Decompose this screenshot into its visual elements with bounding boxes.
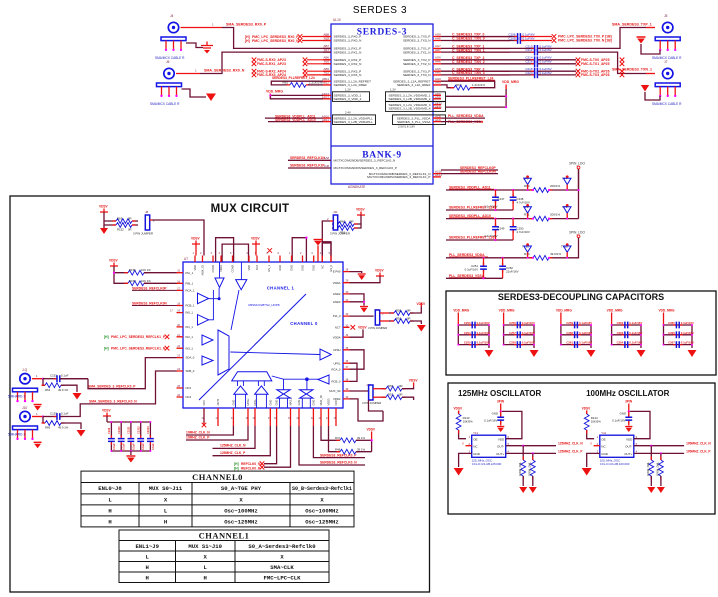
node VDDAMD group box right 1 <box>386 92 446 102</box>
svg-text:AC9: AC9 <box>435 118 441 122</box>
svg-text:REFCLK0_P: REFCLK0_P <box>241 467 261 471</box>
node VDD group box left <box>333 92 370 102</box>
svg-text:MGTXCOMGNDB/SERDES_3_REFCLK0_N: MGTXCOMGNDB/SERDES_3_REFCLK0_N <box>334 159 396 163</box>
svg-text:1.21K/1%: 1.21K/1% <box>309 81 322 85</box>
svg-text:0.1uF/16V: 0.1uF/16V <box>522 321 535 325</box>
svg-text:C249: C249 <box>498 227 505 231</box>
svg-text:VDD: VDD <box>498 437 505 441</box>
jumper J13 lower right <box>350 390 369 392</box>
buffer B4 <box>198 315 209 326</box>
svg-text:125MHZ_CLK_N: 125MHZ_CLK_N <box>558 442 583 446</box>
capacitor C258 0.1uF/16V <box>514 341 524 348</box>
svg-text:C216: C216 <box>525 60 533 64</box>
svg-text:R64: R64 <box>45 388 51 392</box>
wire decoupling bus group 4 <box>612 325 641 348</box>
svg-text:R63: R63 <box>117 217 123 221</box>
wire J-Q to mux pin <box>60 358 176 389</box>
svg-text:SMA_SERDES3_RX0_P: SMA_SERDES3_RX0_P <box>226 23 267 27</box>
transistor bowtie cluster <box>277 390 290 394</box>
ground of J4 <box>186 43 203 48</box>
capacitor C262 0.1uF/16V <box>622 322 632 329</box>
svg-text:VDD: VDD <box>247 265 251 271</box>
wire TX to nc FMC-S-TX0_AP25 <box>538 59 576 61</box>
svg-text:GND2: GND2 <box>333 292 341 296</box>
svg-text:FMC~LPC~CLK: FMC~LPC~CLK <box>264 575 302 582</box>
svg-text:SERDES_3_VDD_2: SERDES_3_VDD_2 <box>334 97 362 101</box>
svg-text:SMA_SERDES3_RX0_N: SMA_SERDES3_RX0_N <box>204 69 245 73</box>
wire to cap <box>441 74 534 76</box>
svg-text:200/1%: 200/1% <box>550 213 561 217</box>
resistor R157 10K 1% <box>125 281 148 286</box>
svg-text:CCL.D.GS.AB.100.000: CCL.D.GS.AB.100.000 <box>600 462 630 466</box>
svg-text:H: H <box>164 519 167 526</box>
svg-text:0.1uF: 0.1uF <box>141 443 145 450</box>
svg-text:0.1uF: 0.1uF <box>112 443 116 450</box>
svg-text:NC: NC <box>320 265 324 269</box>
buffer B5 <box>202 335 213 345</box>
ground pulldown 1 <box>647 487 655 493</box>
svg-text:R56: R56 <box>388 384 394 388</box>
svg-text:FMC-S-TX1_AP25: FMC-S-TX1_AP25 <box>581 62 610 66</box>
capacitor C265 0.1uF/16V <box>673 322 683 329</box>
svg-text:IN1_1: IN1_1 <box>186 325 194 329</box>
svg-text:H: H <box>108 508 111 515</box>
svg-text:4.7uF/16V: 4.7uF/16V <box>517 200 530 204</box>
svg-text:S0_A~TGE PHY: S0_A~TGE PHY <box>221 485 262 492</box>
svg-text:C208: C208 <box>508 36 516 40</box>
ground decoupling group 3 <box>587 350 596 357</box>
BANK-9 divider <box>331 145 433 147</box>
svg-text:GND: GND <box>301 265 305 271</box>
svg-text:R58: R58 <box>396 309 402 313</box>
svg-text:X: X <box>590 442 592 446</box>
node PLL VDDA group box right <box>393 115 446 125</box>
capacitor C256 0.1uF/16V <box>514 322 524 329</box>
pin 1 stub J10 <box>32 416 42 418</box>
resistor pulldown 2 <box>532 453 534 460</box>
wire TX to nc FMC-S-TX3_AP26 <box>538 74 576 76</box>
wire to cap <box>441 59 534 61</box>
resistor R48 39 1% <box>329 426 341 452</box>
ground cap bank <box>130 451 132 455</box>
svg-text:H: H <box>146 575 149 582</box>
svg-text:VDDA: VDDA <box>333 281 341 285</box>
svg-text:CHANNEL 0: CHANNEL 0 <box>290 321 318 326</box>
svg-text:J5: J5 <box>664 14 668 18</box>
wire J6 to RX1_N <box>200 52 331 73</box>
svg-text:IN3_1: IN3_1 <box>186 346 194 350</box>
svg-text:C264: C264 <box>617 341 624 345</box>
svg-text:SERDES3_PLLREFRET_L26: SERDES3_PLLREFRET_L26 <box>449 236 495 240</box>
wire TX to nc FMC-S-TX2_AP26 <box>538 70 576 72</box>
ground decoupling group 1 <box>485 350 494 357</box>
wire VDD loop <box>502 411 522 438</box>
ground J12 <box>417 325 426 332</box>
net FMC-S-RX no-connect row 2 <box>252 73 257 78</box>
ground pulldown 2 <box>529 487 537 493</box>
pin AD8 <box>433 98 441 100</box>
pin 1 stub J4 <box>181 27 223 29</box>
svg-text:R47: R47 <box>335 436 341 440</box>
svg-text:H: H <box>108 519 111 526</box>
svg-text:PLL_SERDES3_VDDA: PLL_SERDES3_VDDA <box>449 253 485 257</box>
svg-text:AGNDKATE: AGNDKATE <box>348 185 365 189</box>
svg-text:J-Q: J-Q <box>22 368 28 372</box>
wire TX to nc FMC-S-TX1_AP25 <box>538 63 576 65</box>
svg-text:C263: C263 <box>617 331 624 335</box>
pin AD10 <box>323 117 331 119</box>
wire loop top D <box>322 242 331 262</box>
svg-text:125MHZ_CLK_P: 125MHZ_CLK_P <box>220 451 246 455</box>
svg-text:49.9 1%: 49.9 1% <box>58 388 69 392</box>
svg-text:3PIN: 3PIN <box>497 400 505 404</box>
svg-text:0.1uF: 0.1uF <box>61 374 69 378</box>
svg-text:R69: R69 <box>524 184 530 188</box>
ground pulldown 2 <box>657 487 665 493</box>
svg-text:NC4: NC4 <box>186 395 192 399</box>
svg-text:AA8: AA8 <box>324 156 330 160</box>
svg-text:C220: C220 <box>525 71 533 75</box>
resistor R56 0R <box>373 388 382 390</box>
wire OUT- <box>634 445 684 447</box>
svg-text:3PIN_LDO: 3PIN_LDO <box>569 231 585 235</box>
svg-text:C151: C151 <box>50 374 57 378</box>
svg-text:NC5: NC5 <box>202 400 206 406</box>
svg-text:SERDES_3_L2A_RREF: SERDES_3_L2A_RREF <box>334 83 368 87</box>
svg-text:GND: GND <box>620 412 626 416</box>
svg-text:S0_B~Serdes3~Refclk1: S0_B~Serdes3~Refclk1 <box>292 485 353 492</box>
svg-text:C267: C267 <box>668 341 675 345</box>
svg-text:R157: R157 <box>129 279 136 283</box>
svg-text:2.4V: 2.4V <box>345 111 351 115</box>
svg-text:SMA~CLK: SMA~CLK <box>270 564 294 571</box>
svg-text:SDA_0: SDA_0 <box>186 356 195 360</box>
svg-text:10MHZ_CLK_N: 10MHZ_CLK_N <box>186 431 210 435</box>
svg-text:Osc~100MHz: Osc~100MHz <box>224 508 258 515</box>
pin AC8 <box>433 117 441 119</box>
svg-text:AF11: AF11 <box>435 105 442 109</box>
svg-text:NC7: NC7 <box>335 325 341 329</box>
node VDDAMD group box right 2 <box>386 102 446 112</box>
svg-text:J6: J6 <box>166 60 170 64</box>
jumper J12 <box>350 315 374 317</box>
wire TX1_P to SMA J5 <box>538 28 646 49</box>
ground decoupling group 4 <box>637 350 646 357</box>
capacitor C264 0.1uF/16V <box>622 341 632 348</box>
svg-text:SERDES3_REFCLK1P: SERDES3_REFCLK1P <box>290 164 325 168</box>
svg-text:125MHz OSCILLATOR: 125MHz OSCILLATOR <box>458 389 541 398</box>
svg-text:Y11: Y11 <box>473 431 478 435</box>
svg-text:PIA_0: PIA_0 <box>333 314 341 318</box>
svg-text:MUX_S1: MUX_S1 <box>201 264 205 275</box>
svg-text:RCA_1: RCA_1 <box>186 289 195 293</box>
SERDES-3 right pins TX rows <box>433 37 441 85</box>
svg-text:AD11: AD11 <box>322 118 329 122</box>
resistor pulldown 1 <box>650 446 652 460</box>
svg-text:[H]: [H] <box>245 39 250 43</box>
svg-text:GND: GND <box>473 452 481 456</box>
wire J8 resistors <box>104 212 138 225</box>
svg-text:Y11: Y11 <box>601 431 606 435</box>
svg-text:125MHZ_CLK_N: 125MHZ_CLK_N <box>220 444 246 448</box>
buffer B7 right <box>320 349 331 360</box>
svg-text:VDSV: VDSV <box>191 237 201 241</box>
svg-text:SERDES3_REFCLK0N: SERDES3_REFCLK0N <box>132 302 167 306</box>
wire to cap <box>441 51 534 53</box>
capacitor C1313 0.1uF <box>149 422 151 451</box>
svg-text:0.1uF: 0.1uF <box>61 411 69 415</box>
svg-text:0R: 0R <box>407 309 411 313</box>
net 125MHZ_CLK_P mux <box>213 426 271 456</box>
svg-text:0R: 0R <box>128 228 132 232</box>
resistor pulldown 1 <box>522 446 524 460</box>
svg-text:0.1uF: 0.1uF <box>122 443 126 450</box>
pin AC9 <box>433 121 441 123</box>
wire to cap <box>441 63 534 65</box>
svg-text:VDDA: VDDA <box>333 335 341 339</box>
svg-text:X: X <box>462 442 464 446</box>
wire diagonal main <box>199 294 306 400</box>
svg-text:ENL1~J9: ENL1~J9 <box>135 543 159 550</box>
svg-text:GND: GND <box>601 452 609 456</box>
svg-text:0.1uF: 0.1uF <box>151 443 155 450</box>
svg-text:4.7uF/16V: 4.7uF/16V <box>517 230 530 234</box>
svg-text:GND: GND <box>278 265 282 271</box>
svg-text:49.9 1%: 49.9 1% <box>58 426 69 430</box>
svg-text:100MHz OSCILLATOR: 100MHz OSCILLATOR <box>586 389 669 398</box>
svg-text:SERDES_3_RX2_N: SERDES_3_RX2_N <box>334 62 362 66</box>
svg-text:OUT1: OUT1 <box>216 398 220 405</box>
svg-text:C266: C266 <box>668 331 675 335</box>
svg-text:MUX_S0: MUX_S0 <box>319 395 323 406</box>
capacitor C252 22uF/16V <box>499 263 506 273</box>
svg-text:C153: C153 <box>50 411 57 415</box>
capacitor C255 0.1uF/16V <box>469 341 479 348</box>
pin AF11 <box>433 107 441 109</box>
svg-text:5/MHARD-1: 5/MHARD-1 <box>8 395 25 399</box>
wire loop top B <box>222 244 248 262</box>
capacitor C139 0.1uF <box>110 422 112 451</box>
ground J10 shield <box>34 442 42 448</box>
svg-text:S0_A~Serdes3~Refclk0: S0_A~Serdes3~Refclk0 <box>248 543 316 550</box>
svg-text:SERDES3_PLLREFRET_L24: SERDES3_PLLREFRET_L24 <box>449 205 495 209</box>
svg-text:AH8: AH8 <box>435 36 441 40</box>
svg-text:J10: J10 <box>22 406 27 410</box>
svg-text:0R: 0R <box>350 220 354 224</box>
svg-text:VDD: VDD <box>626 437 633 441</box>
pin AD13 <box>323 94 331 96</box>
svg-text:VDSV: VDSV <box>102 409 112 413</box>
svg-text:SERDES_3_L2B_VDDAMD_2: SERDES_3_L2B_VDDAMD_2 <box>389 97 431 101</box>
svg-text:COM2: COM2 <box>231 264 235 272</box>
svg-text:0.1uF/16V: 0.1uF/16V <box>484 419 497 423</box>
svg-text:0.1uF: 0.1uF <box>131 443 135 450</box>
svg-text:C1312: C1312 <box>137 426 141 434</box>
svg-text:10K 1%: 10K 1% <box>141 268 151 272</box>
capacitor C260 0.1uF/16V <box>571 331 581 338</box>
svg-text:C1310: C1310 <box>117 426 121 434</box>
ground J10 <box>77 430 86 437</box>
svg-text:GND: GND <box>311 400 315 406</box>
svg-text:Osc~100MHz: Osc~100MHz <box>305 508 339 515</box>
wire to right buffer <box>230 352 320 355</box>
pin 1 stub J6 <box>176 73 200 75</box>
wire MUX_S0 to jumper J13 <box>350 399 384 421</box>
svg-text:OE: OE <box>473 437 477 441</box>
svg-text:CHANNEL 1: CHANNEL 1 <box>267 286 295 291</box>
mux trapezoid M2 bottom <box>232 372 272 381</box>
svg-text:U7: U7 <box>184 257 188 261</box>
svg-text:SERDES_3_RX0_N: SERDES_3_RX0_N <box>334 39 362 43</box>
wire decoupling bus group 3 <box>561 325 591 348</box>
wire J11 resistors <box>332 215 361 228</box>
ground pulldown 1 <box>519 487 527 493</box>
box MUX CIRCUIT <box>10 196 430 592</box>
capacitor C266 0.1uF/16V <box>673 331 683 338</box>
svg-text:VDD2: VDD2 <box>333 397 341 401</box>
svg-text:C253: C253 <box>464 321 471 325</box>
svg-text:VDD_MRG: VDD_MRG <box>556 309 572 313</box>
wire to cap <box>441 36 517 38</box>
svg-text:C247: C247 <box>498 197 505 201</box>
svg-text:EN_1: EN_1 <box>267 264 271 271</box>
wire GND pin to ground <box>459 453 472 467</box>
resistor R59 0R <box>380 320 389 322</box>
svg-text:GND3: GND3 <box>333 300 341 304</box>
svg-text:VDD_MRG: VDD_MRG <box>607 309 623 313</box>
wire VDD_MRG to VDD pins <box>270 95 323 98</box>
svg-text:C139: C139 <box>107 427 111 434</box>
svg-text:MGTXCOMGNDPA/SERDES_3_REFCLK1_: MGTXCOMGNDPA/SERDES_3_REFCLK1_P <box>367 175 430 179</box>
svg-text:[H]: [H] <box>104 346 109 350</box>
svg-text:SERDES_3_L2B_VDDAMD_4: SERDES_3_L2B_VDDAMD_4 <box>389 106 431 110</box>
op block SERDES-3 U-L10 <box>331 24 433 184</box>
capacitor C250 4.7uF/16V <box>510 223 517 233</box>
svg-text:SERDES3_REFCLK0P: SERDES3_REFCLK0P <box>132 286 167 290</box>
wire OUT+ <box>506 452 556 454</box>
svg-text:SMA_SERDES_3_REFCLK0_P: SMA_SERDES_3_REFCLK0_P <box>88 385 136 389</box>
svg-text:PMC_LPC_SERDES3_REFCLK1_P: PMC_LPC_SERDES3_REFCLK1_P <box>111 335 166 339</box>
svg-text:VDSV: VDSV <box>358 325 368 329</box>
net 10MHZ_CLK_P <box>186 426 248 440</box>
svg-text:SERDES3_REFCLK0_N: SERDES3_REFCLK0_N <box>320 461 357 465</box>
svg-text:R66: R66 <box>45 426 51 430</box>
ground of J7 <box>645 92 660 100</box>
svg-text:SERDES_3_PLL_VSSA: SERDES_3_PLL_VSSA <box>397 120 431 124</box>
nc X bottom pin 1 <box>202 423 207 428</box>
svg-text:SMA/MCX CABLE R: SMA/MCX CABLE R <box>652 102 682 106</box>
svg-text:0.1uF/16V: 0.1uF/16V <box>522 341 535 345</box>
svg-text:10K/5%: 10K/5% <box>463 420 474 424</box>
svg-text:VDD_MRG: VDD_MRG <box>266 90 283 94</box>
resistor R61 0R <box>335 226 358 231</box>
svg-text:NC3: NC3 <box>186 386 192 390</box>
capacitor C254 0.1uF/16V <box>469 331 479 338</box>
svg-text:SERDES3_PLLREFRET_L24: SERDES3_PLLREFRET_L24 <box>448 76 494 80</box>
svg-text:3PIN: 3PIN <box>625 400 633 404</box>
svg-text:PMC_LPC_SERDES3_RX0_N: PMC_LPC_SERDES3_RX0_N <box>252 39 299 43</box>
net FMC-S-RX no-connect row 2 <box>252 69 257 74</box>
ground J-Q <box>73 393 82 400</box>
svg-text:OE: OE <box>601 437 605 441</box>
svg-text:GND: GND <box>492 412 498 416</box>
pin stub NC <box>466 445 472 447</box>
pin AD11 <box>323 121 331 123</box>
svg-text:R152: R152 <box>117 228 124 232</box>
resistor R57 0R <box>373 396 382 398</box>
svg-text:MUX CIRCUIT: MUX CIRCUIT <box>211 203 290 215</box>
svg-text:R57: R57 <box>388 393 394 397</box>
svg-text:VDSV: VDSV <box>367 428 377 432</box>
svg-text:AD8: AD8 <box>435 95 441 99</box>
SERDES-3 left pins RX rows <box>323 37 331 85</box>
svg-text:125MHZ_CLK_P: 125MHZ_CLK_P <box>558 449 583 453</box>
svg-text:0.1uF/16V: 0.1uF/16V <box>477 341 490 345</box>
transistor pair cluster <box>258 381 264 386</box>
resistor R152 0R <box>113 223 136 228</box>
resistor R65b 49.9 1% <box>43 417 45 424</box>
svg-text:C260: C260 <box>566 331 573 335</box>
svg-text:SDB_0: SDB_0 <box>186 369 195 373</box>
capacitor C1311 0.1uF <box>130 422 132 451</box>
svg-text:PIA_1: PIA_1 <box>186 271 194 275</box>
svg-text:REFCLK0_N: REFCLK0_N <box>241 462 261 466</box>
svg-text:J7: J7 <box>664 60 668 64</box>
svg-text:SMA/MCX CABLE R: SMA/MCX CABLE R <box>150 102 180 106</box>
pin AF10 <box>433 104 441 106</box>
mux right pin stubs <box>343 272 350 399</box>
svg-text:RCB_0: RCB_0 <box>331 380 340 384</box>
svg-text:UP1H: UP1H <box>246 398 250 405</box>
svg-text:CHANNEL0: CHANNEL0 <box>192 472 243 482</box>
svg-text:UL10: UL10 <box>333 18 341 22</box>
svg-text:C257: C257 <box>509 331 516 335</box>
svg-text:C259: C259 <box>566 321 573 325</box>
svg-text:3 PIN JUMPER: 3 PIN JUMPER <box>330 232 350 236</box>
ground mux top <box>314 240 323 263</box>
svg-text:PMC_LPC_SERDES3_REFCLK1_N: PMC_LPC_SERDES3_REFCLK1_N <box>111 346 166 350</box>
svg-text:C265: C265 <box>668 321 675 325</box>
svg-text:FMC-S-TX3_AP26: FMC-S-TX3_AP26 <box>581 73 610 77</box>
resistor R64 49.9 1% <box>43 379 45 386</box>
wire to cap <box>441 40 517 42</box>
capacitor C251 0.1uF/16V <box>484 258 503 279</box>
capacitor C259 0.1uF/16V <box>571 322 581 329</box>
svg-text:R60: R60 <box>340 220 346 224</box>
svg-text:MGTXCOMGNDPA/SERDES_3_REFCLK0_: MGTXCOMGNDPA/SERDES_3_REFCLK0_P <box>334 166 397 170</box>
svg-text:J4: J4 <box>170 14 174 18</box>
svg-text:PIB_1: PIB_1 <box>186 281 194 285</box>
svg-text:FMC-S-RX1_AP23: FMC-S-RX1_AP23 <box>257 62 286 66</box>
pin 1 stub J-Q <box>32 378 42 380</box>
svg-text:MUX S1~J10: MUX S1~J10 <box>188 543 222 550</box>
svg-text:1R0M_DNL: 1R0M_DNL <box>656 461 660 476</box>
resistor R63 0R <box>113 219 136 224</box>
svg-text:SERDES_3_TX3_N: SERDES_3_TX3_N <box>403 73 431 77</box>
wire decoupling bus group 5 <box>664 325 693 348</box>
svg-text:R71: R71 <box>524 213 530 217</box>
svg-text:UP0L: UP0L <box>334 361 341 365</box>
svg-text:PMC_LPC_SERDES3_TX0_N [1B]: PMC_LPC_SERDES3_TX0_N [1B] <box>558 39 612 43</box>
svg-text:AH5: AH5 <box>435 71 441 75</box>
svg-text:PLL_SERDES3_VSSA: PLL_SERDES3_VSSA <box>449 274 485 278</box>
svg-text:SMA/MCX CABLE R: SMA/MCX CABLE R <box>155 56 185 60</box>
svg-text:0.1uF/16V: 0.1uF/16V <box>612 419 625 423</box>
wire bowtie bus <box>284 379 319 390</box>
capacitor C249 2.2uF/16V <box>496 219 514 240</box>
svg-text:SERDES_3_RX1_N: SERDES_3_RX1_N <box>334 50 362 54</box>
svg-text:J8: J8 <box>145 210 149 214</box>
